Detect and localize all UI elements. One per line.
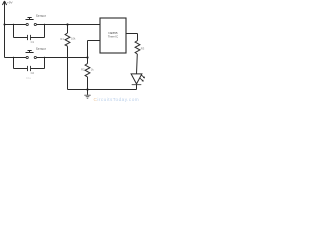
sensor switch S2 actuator — [26, 52, 34, 54]
wire IC output — [126, 33, 138, 35]
svg-text:C2: C2 — [31, 71, 35, 75]
svg-text:NE555: NE555 — [108, 31, 118, 35]
wire row1 right segment to IC — [37, 24, 100, 26]
left rail wire — [4, 25, 6, 58]
sensor switch S1 actuator — [26, 19, 34, 21]
wire R1 bottom through row2 to ground wire — [67, 46, 69, 89]
wire cap branch 1 left drop — [13, 25, 15, 38]
wire bottom ground rail — [68, 89, 137, 91]
sensor switch S2 contact right — [34, 56, 36, 58]
svg-text:R3: R3 — [141, 47, 145, 51]
wire trigger riser to IC pin — [87, 41, 89, 58]
resistor R3 — [135, 41, 140, 55]
wire row2 left segment — [5, 57, 27, 59]
svg-text:Sensor: Sensor — [36, 47, 47, 51]
sensor switch S2 contact left — [26, 56, 28, 58]
node ground — [86, 88, 88, 90]
wire cap branch 1 right riser — [44, 25, 46, 38]
LED light arrows — [141, 75, 145, 79]
ground symbol — [87, 90, 89, 95]
svg-text:Timer IC: Timer IC — [108, 35, 118, 39]
svg-text:Sensor: Sensor — [36, 14, 47, 18]
wire cap branch 2 left drop — [13, 58, 15, 69]
op-amp U1 IC box — [100, 18, 126, 53]
svg-text:0.1u: 0.1u — [26, 76, 32, 80]
LED D1 — [131, 74, 142, 84]
node row1/R1 — [66, 23, 68, 25]
wire cap branch 1 horizontal right — [31, 37, 45, 39]
junction dots — [3, 23, 88, 90]
power supply arrow +9V — [4, 2, 6, 25]
wire cap branch 1 horizontal left — [14, 37, 28, 39]
wire cap branch 2 right riser — [44, 58, 46, 69]
node cap2 right tap — [44, 57, 45, 58]
node row2/trigger — [86, 56, 88, 58]
sensor switch S1 contact right — [34, 23, 36, 25]
svg-text:C1: C1 — [31, 40, 35, 44]
svg-text:+9V: +9V — [7, 0, 14, 4]
svg-text:10k: 10k — [71, 36, 76, 40]
wire cap branch 2 horizontal right — [31, 68, 45, 70]
node cap2 left tap — [13, 57, 14, 58]
capacitor C1 — [27, 35, 29, 40]
sensor switch S1 contact left — [26, 23, 28, 25]
svg-text:R2: R2 — [81, 67, 85, 71]
node cap1 right tap — [44, 24, 45, 25]
wire cap branch 2 horizontal left — [14, 68, 28, 70]
wire row2 right segment — [37, 57, 88, 59]
node cap1 left tap — [13, 24, 14, 25]
capacitor C2 — [27, 66, 29, 71]
resistor R2 — [87, 58, 89, 64]
resistor R1 — [67, 25, 69, 34]
svg-text:R1: R1 — [60, 37, 64, 41]
node row1/rail — [3, 23, 5, 25]
wire row1 left segment — [5, 24, 27, 26]
svg-text:CircuitsToday.com: CircuitsToday.com — [94, 97, 140, 102]
